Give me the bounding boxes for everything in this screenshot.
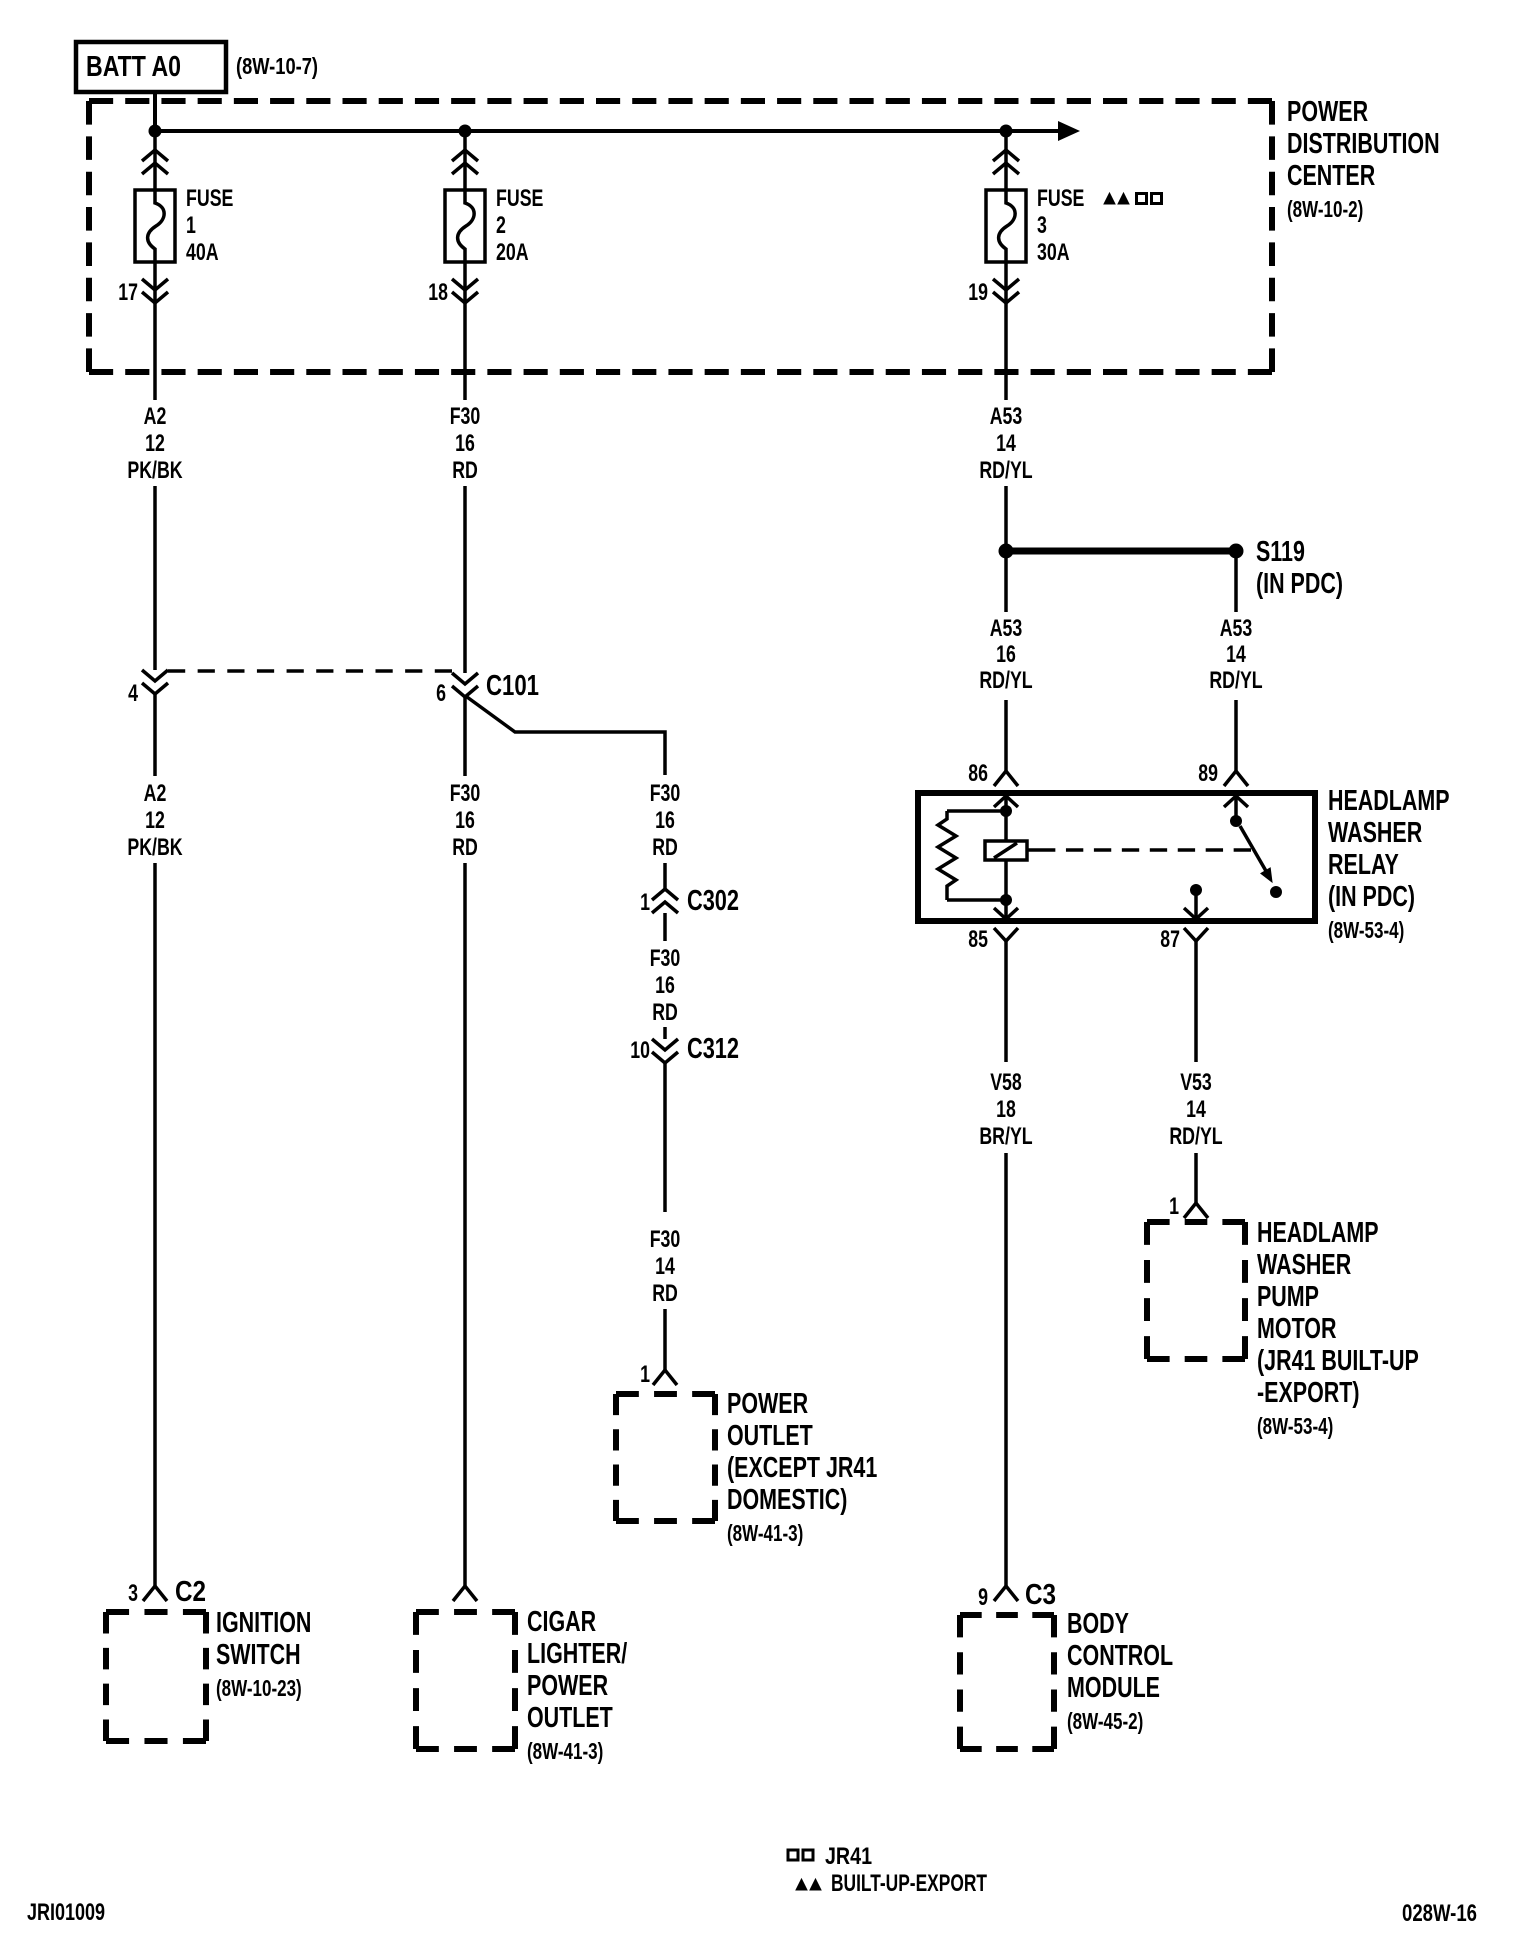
connector chevrons below fuse 3 (993, 279, 1019, 290)
svg-text:CENTER: CENTER (1287, 160, 1375, 192)
svg-text:C3: C3 (1025, 1579, 1056, 1611)
node relay contact 87 (normally open) (1270, 886, 1282, 898)
svg-text:1: 1 (1169, 1193, 1179, 1220)
svg-text:40A: 40A (186, 239, 219, 266)
wire bus to fuse 2 (463, 131, 467, 190)
wire V58 to BCM connector (1004, 1153, 1008, 1586)
power distribution center dashed box (89, 98, 1272, 104)
svg-text:(8W-53-4): (8W-53-4) (1328, 917, 1404, 943)
svg-text:C312: C312 (687, 1033, 739, 1065)
connector fork at relay pin 89 (1224, 771, 1248, 786)
wire A2 to ignition switch (153, 863, 157, 1586)
svg-text:14: 14 (655, 1253, 675, 1280)
svg-text:HEADLAMP: HEADLAMP (1257, 1217, 1379, 1249)
svg-text:F30: F30 (650, 945, 681, 972)
relay wire pin 87 (1194, 890, 1198, 918)
svg-text:17: 17 (118, 279, 138, 306)
svg-text:DISTRIBUTION: DISTRIBUTION (1287, 128, 1440, 160)
fuse 3 variant triangles (1104, 193, 1115, 204)
svg-text:16: 16 (655, 972, 675, 999)
svg-text:16: 16 (996, 641, 1016, 668)
svg-text:OUTLET: OUTLET (527, 1702, 613, 1734)
wire C312 down (663, 1063, 667, 1212)
svg-text:RD/YL: RD/YL (1169, 1123, 1222, 1150)
svg-text:(8W-10-2): (8W-10-2) (1287, 196, 1363, 222)
wire battery feed to bus (153, 94, 157, 131)
svg-text:A53: A53 (990, 403, 1023, 430)
relay pin 86 internal chevron (994, 796, 1018, 807)
node splice S119 left (999, 544, 1014, 559)
svg-text:MOTOR: MOTOR (1257, 1313, 1337, 1345)
svg-text:WASHER: WASHER (1328, 817, 1422, 849)
connector C101 pin 4 chevrons (142, 670, 168, 681)
node junction fuse3 (1000, 125, 1013, 138)
svg-text:(8W-10-23): (8W-10-23) (216, 1675, 302, 1701)
svg-text:(IN PDC): (IN PDC) (1256, 568, 1343, 600)
node splice S119 right (1229, 544, 1244, 559)
connector chevrons below fuse 1 (142, 279, 168, 290)
svg-text:WASHER: WASHER (1257, 1249, 1351, 1281)
wire bus to fuse 3 (1004, 131, 1008, 190)
connector chevrons above fuse 2 (452, 150, 478, 161)
connector fork at pump pin 1 (1184, 1203, 1208, 1218)
cigar lighter dashed box (416, 1609, 515, 1615)
headlamp washer pump motor dashed box (1147, 1219, 1245, 1225)
svg-text:CONTROL: CONTROL (1067, 1640, 1173, 1672)
connector fork below relay pin 87 (1184, 928, 1208, 941)
svg-text:16: 16 (655, 807, 675, 834)
svg-text:(IN PDC): (IN PDC) (1328, 881, 1415, 913)
svg-text:89: 89 (1198, 760, 1218, 787)
svg-text:(8W-45-2): (8W-45-2) (1067, 1708, 1143, 1734)
connector fork at relay pin 86 (994, 771, 1018, 786)
svg-text:86: 86 (968, 760, 988, 787)
C101 dashed connector line (168, 669, 452, 673)
relay pin 87 internal chevron (1184, 908, 1208, 919)
svg-text:RD: RD (452, 457, 478, 484)
svg-text:F30: F30 (650, 1226, 681, 1253)
fuse 3 variant squares (1137, 194, 1147, 204)
svg-text:6: 6 (436, 680, 446, 707)
svg-text:4: 4 (128, 680, 138, 707)
wire A2 below C101 (153, 694, 157, 776)
svg-text:RD: RD (652, 1280, 678, 1307)
svg-text:PK/BK: PK/BK (127, 834, 183, 861)
legend built-up-export triangles (796, 1879, 807, 1890)
node relay switch common (1230, 815, 1242, 827)
svg-text:SWITCH: SWITCH (216, 1639, 301, 1671)
svg-text:PK/BK: PK/BK (127, 457, 183, 484)
svg-text:LIGHTER/: LIGHTER/ (527, 1638, 627, 1670)
wire A53 to splice S119 (1004, 486, 1008, 545)
svg-text:14: 14 (1186, 1096, 1206, 1123)
relay actuation dashed link (1027, 848, 1038, 852)
node relay pin 87 lead (1190, 884, 1202, 896)
connector fork at ignition switch pin 3 (143, 1586, 167, 1601)
svg-text:A2: A2 (144, 780, 167, 807)
wire relay pin 85 to BCM (1004, 941, 1008, 1062)
svg-text:F30: F30 (450, 780, 481, 807)
svg-text:CIGAR: CIGAR (527, 1606, 596, 1638)
relay pin 85 internal chevron (994, 908, 1018, 919)
svg-text:C101: C101 (486, 670, 539, 702)
svg-text:85: 85 (968, 926, 988, 953)
resistor bottom lead (947, 898, 1006, 902)
wire fuse 1 output (153, 262, 157, 400)
svg-text:RD/YL: RD/YL (979, 457, 1032, 484)
relay coil U1 box (985, 841, 1027, 860)
fuse 1 box (135, 190, 175, 262)
svg-text:S119: S119 (1256, 536, 1305, 568)
headlamp washer relay box (918, 793, 1315, 921)
wire to power outlet (663, 1309, 667, 1370)
svg-text:A53: A53 (990, 615, 1023, 642)
connector C101 pin 6 chevrons (452, 673, 478, 684)
wire splice to relay pin 89 (1234, 558, 1238, 612)
svg-text:POWER: POWER (527, 1670, 608, 1702)
svg-text:FUSE: FUSE (496, 185, 543, 212)
svg-text:DOMESTIC): DOMESTIC) (727, 1484, 847, 1516)
node relay coil bottom (1000, 894, 1012, 906)
svg-text:PUMP: PUMP (1257, 1281, 1319, 1313)
ignition switch dashed box (106, 1609, 206, 1615)
svg-text:RD/YL: RD/YL (1209, 667, 1262, 694)
svg-text:10: 10 (630, 1037, 650, 1064)
svg-text:18: 18 (996, 1096, 1016, 1123)
svg-text:(8W-41-3): (8W-41-3) (727, 1520, 803, 1546)
connector chevrons above fuse 1 (142, 150, 168, 161)
body control module dashed box (960, 1612, 1054, 1618)
connector fork below relay pin 85 (994, 928, 1018, 941)
wire A2 to C101 (153, 486, 157, 670)
svg-text:HEADLAMP: HEADLAMP (1328, 785, 1450, 817)
svg-text:RD: RD (652, 999, 678, 1026)
svg-text:RD: RD (452, 834, 478, 861)
svg-text:BATT A0: BATT A0 (86, 51, 181, 83)
relay pin 89 internal chevron (1224, 796, 1248, 807)
svg-text:9: 9 (978, 1584, 988, 1611)
svg-text:FUSE: FUSE (1037, 185, 1084, 212)
svg-text:C2: C2 (175, 1576, 206, 1608)
svg-text:(8W-10-7): (8W-10-7) (236, 53, 318, 79)
node relay coil top (1000, 805, 1012, 817)
splice S119 bus (1006, 548, 1236, 555)
wire label to pin 89 (1234, 700, 1238, 771)
svg-text:18: 18 (428, 279, 448, 306)
svg-text:19: 19 (968, 279, 988, 306)
wire F30 to C101 (463, 486, 467, 673)
svg-text:028W-16: 028W-16 (1402, 1900, 1477, 1927)
svg-text:V53: V53 (1180, 1069, 1212, 1096)
svg-text:16: 16 (455, 430, 475, 457)
svg-text:(8W-41-3): (8W-41-3) (527, 1738, 603, 1764)
wire splice to relay pin 86 (1004, 558, 1008, 612)
svg-text:(EXCEPT JR41: (EXCEPT JR41 (727, 1452, 877, 1484)
svg-text:30A: 30A (1037, 239, 1070, 266)
svg-text:2: 2 (496, 212, 506, 239)
svg-text:BUILT-UP-EXPORT: BUILT-UP-EXPORT (831, 1870, 987, 1897)
wire V53 to pump connector (1194, 1153, 1198, 1203)
svg-text:RD: RD (652, 834, 678, 861)
svg-text:IGNITION: IGNITION (216, 1607, 311, 1639)
connector fork at power outlet pin 1 (653, 1370, 677, 1385)
svg-text:A53: A53 (1220, 615, 1253, 642)
wire branch to C302 (663, 863, 667, 889)
wire branch from C101 to power outlet feed (467, 697, 665, 775)
svg-text:14: 14 (1226, 641, 1246, 668)
wire C302 to label (663, 913, 667, 941)
relay wire pin 85 (1004, 900, 1008, 918)
svg-text:RELAY: RELAY (1328, 849, 1399, 881)
node junction fuse1 (149, 125, 162, 138)
power outlet dashed box (616, 1391, 715, 1397)
wire bus bar (155, 129, 1062, 133)
wire F30 below C101 (463, 697, 467, 776)
battery feed BATT A0 box (76, 42, 226, 92)
resistor zigzag (938, 811, 956, 900)
svg-text:POWER: POWER (1287, 96, 1368, 128)
relay coil upper lead (1004, 811, 1008, 841)
svg-text:JR41: JR41 (825, 1843, 872, 1870)
connector C302 chevrons (652, 889, 678, 900)
connector chevrons above fuse 3 (993, 150, 1019, 161)
wire F30 to cigar lighter (463, 863, 467, 1586)
resistor (coil suppression) top lead (947, 809, 1006, 813)
relay coil lower lead (1004, 860, 1008, 902)
svg-text:16: 16 (455, 807, 475, 834)
fuse 3 box (986, 190, 1026, 262)
svg-text:FUSE: FUSE (186, 185, 233, 212)
svg-text:14: 14 (996, 430, 1016, 457)
connector C312 chevrons (652, 1039, 678, 1050)
relay wire pin86 to coil node (1004, 796, 1008, 813)
bus arrowhead (1058, 121, 1080, 141)
svg-text:RD/YL: RD/YL (979, 667, 1032, 694)
wire label to pin 86 (1004, 700, 1008, 771)
svg-text:BR/YL: BR/YL (979, 1123, 1032, 1150)
connector chevrons below fuse 2 (452, 279, 478, 290)
svg-text:JRI01009: JRI01009 (27, 1899, 105, 1926)
svg-text:(JR41 BUILT-UP: (JR41 BUILT-UP (1257, 1345, 1419, 1377)
svg-text:-EXPORT): -EXPORT) (1257, 1377, 1360, 1409)
svg-text:C302: C302 (687, 885, 739, 917)
svg-text:BODY: BODY (1067, 1608, 1129, 1640)
relay wire pin89 to switch (1234, 796, 1238, 818)
wire label to C312 (663, 1027, 667, 1039)
svg-text:1: 1 (186, 212, 196, 239)
connector fork at BCM pin 9 (994, 1586, 1018, 1601)
fuse 2 box (445, 190, 485, 262)
connector fork at cigar lighter (453, 1586, 477, 1601)
svg-text:3: 3 (1037, 212, 1047, 239)
svg-text:1: 1 (640, 889, 650, 916)
wire fuse 3 output (1004, 262, 1008, 400)
svg-text:V58: V58 (990, 1069, 1022, 1096)
svg-text:3: 3 (128, 1580, 138, 1607)
svg-text:OUTLET: OUTLET (727, 1420, 813, 1452)
svg-text:POWER: POWER (727, 1388, 808, 1420)
legend JR41 squares (788, 1850, 798, 1860)
wire fuse 2 output (463, 262, 467, 400)
svg-text:F30: F30 (650, 780, 681, 807)
wire bus to fuse 1 (153, 131, 157, 190)
svg-text:1: 1 (640, 1361, 650, 1388)
wire relay pin 87 to pump (1194, 941, 1198, 1062)
svg-text:(8W-53-4): (8W-53-4) (1257, 1413, 1333, 1439)
relay switch arm (1240, 826, 1266, 871)
svg-text:12: 12 (145, 430, 165, 457)
svg-text:A2: A2 (144, 403, 167, 430)
svg-text:F30: F30 (450, 403, 481, 430)
node junction fuse2 (459, 125, 472, 138)
svg-text:MODULE: MODULE (1067, 1672, 1160, 1704)
svg-text:12: 12 (145, 807, 165, 834)
svg-text:87: 87 (1160, 926, 1180, 953)
svg-text:20A: 20A (496, 239, 529, 266)
